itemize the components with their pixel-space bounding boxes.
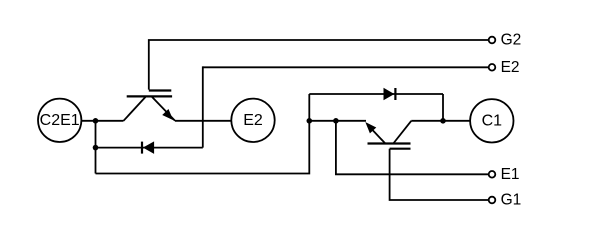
svg-text:E1: E1 bbox=[501, 166, 520, 183]
wire Q1 collector to C1 bbox=[411, 120, 470, 122]
wire E2 vertical (down to diode wire) bbox=[202, 66, 204, 147]
node dot C1 row bbox=[440, 118, 446, 124]
wire G1 gate lead of Q1 bbox=[390, 149, 489, 200]
svg-text:E2: E2 bbox=[243, 112, 263, 129]
node dot on diode row bbox=[93, 145, 99, 151]
wire D1 cathode vertical to C1 row bbox=[442, 94, 444, 121]
left IGBT Q2 emitter arrowhead bbox=[163, 110, 172, 119]
right IGBT Q1 collector line bbox=[393, 121, 411, 144]
svg-text:G2: G2 bbox=[501, 32, 522, 49]
wire diode D2 row bbox=[96, 147, 203, 149]
op: left IGBT Q2 gate bar bbox=[149, 89, 172, 91]
circle terminal E2 bbox=[231, 99, 274, 142]
right IGBT Q1 gate bar bbox=[390, 148, 411, 150]
wire top diode D1 row bbox=[309, 93, 443, 95]
diode D1 triangle (points right) bbox=[384, 89, 393, 100]
diode D1 cathode bar bbox=[394, 88, 396, 100]
wire E1 vertical from emitter row bbox=[336, 121, 489, 175]
left IGBT Q2 collector line bbox=[124, 96, 147, 120]
node dot left on emitter row bbox=[307, 118, 313, 124]
wire G2 lead (top horizontal + gate drop of Q2) bbox=[149, 40, 489, 90]
diode D2 triangle (points left) bbox=[144, 142, 154, 153]
terminal E1 bbox=[489, 171, 496, 178]
circle terminal C2E1 bbox=[38, 99, 81, 142]
svg-text:E2: E2 bbox=[501, 59, 520, 76]
circle terminal C1 bbox=[470, 99, 513, 142]
wire bottom long run to right block bbox=[96, 94, 310, 174]
svg-text:C1: C1 bbox=[482, 112, 503, 129]
terminal G2 bbox=[489, 37, 496, 44]
right IGBT Q1 body bar bbox=[368, 142, 411, 144]
node dot E1 tap on emitter row bbox=[333, 118, 339, 124]
wire Q2 emitter to E2 circle bbox=[175, 120, 231, 122]
node dot C2E1 on collector wire bbox=[93, 118, 99, 124]
terminal G1 bbox=[489, 197, 496, 204]
svg-text:G1: G1 bbox=[501, 192, 522, 209]
svg-text:C2E1: C2E1 bbox=[40, 112, 80, 129]
right IGBT Q1 emitter arrowhead bbox=[366, 123, 375, 132]
diode D2 cathode bar bbox=[141, 142, 143, 154]
wire right emitter row bbox=[309, 120, 366, 122]
left IGBT Q2 body bar bbox=[127, 95, 172, 97]
right IGBT Q1 emitter line bbox=[368, 125, 385, 143]
wire E2 lead (horizontal to terminal) bbox=[203, 66, 489, 68]
terminal E2 bbox=[489, 64, 496, 71]
wire C2E1 to collector of Q2 bbox=[82, 120, 124, 122]
wire C2E1 vertical down bbox=[95, 121, 97, 174]
left IGBT Q2 emitter line bbox=[152, 96, 176, 120]
